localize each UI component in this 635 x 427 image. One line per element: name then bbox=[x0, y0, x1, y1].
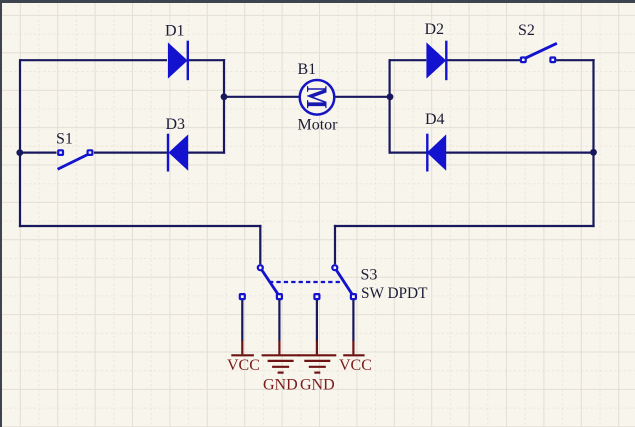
switch S2 bbox=[521, 43, 557, 62]
wire top-left rail bbox=[20, 59, 167, 61]
power VCC right stub bbox=[343, 341, 364, 356]
motor B1 bbox=[300, 80, 335, 115]
wire left vertical bbox=[19, 59, 21, 227]
frame top bbox=[0, 0, 635, 3]
power VCC left stub bbox=[231, 341, 254, 356]
svg-text:S1: S1 bbox=[56, 130, 73, 147]
wire S2 to corner bbox=[556, 59, 594, 61]
wire bottom rail left bbox=[19, 225, 262, 227]
wire S1 to D3 bbox=[94, 152, 167, 154]
node junction x224 motor tap bbox=[221, 93, 228, 100]
wire throw4 to VCC bbox=[352, 300, 354, 341]
svg-text:B1: B1 bbox=[298, 61, 317, 78]
wire bottom rail right bbox=[334, 225, 595, 227]
diode D1 bbox=[168, 41, 188, 80]
svg-text:SW DPDT: SW DPDT bbox=[361, 285, 428, 302]
wire D2 to S2 bbox=[447, 59, 521, 61]
svg-text:M: M bbox=[301, 86, 334, 109]
node junction left bbox=[16, 149, 23, 156]
wire to D4 bbox=[390, 152, 427, 154]
wire right cell left vertical bbox=[389, 59, 391, 154]
wire motor right bbox=[335, 96, 391, 98]
frame left bbox=[0, 0, 2, 427]
diode D2 bbox=[426, 41, 446, 80]
svg-text:VCC: VCC bbox=[339, 357, 372, 374]
diode D4 bbox=[427, 134, 446, 172]
node junction x390 motor tap bbox=[387, 93, 394, 100]
svg-text:GND: GND bbox=[300, 376, 335, 393]
wire throw3 to GND bbox=[316, 300, 318, 341]
svg-text:GND: GND bbox=[263, 376, 298, 393]
wire throw1 to VCC bbox=[241, 300, 243, 341]
diode D3 bbox=[168, 134, 188, 172]
node junction right bbox=[590, 149, 597, 156]
wire vertical x224 bbox=[223, 59, 225, 154]
wire motor left bbox=[224, 96, 300, 98]
switch S3 DPDT bbox=[240, 265, 356, 299]
wire bbox=[19, 59, 595, 341]
wire drop to S3 pole 1 bbox=[259, 225, 261, 264]
switch S1 bbox=[58, 150, 93, 169]
svg-text:D2: D2 bbox=[425, 21, 445, 38]
ground GND2 bbox=[298, 341, 336, 373]
wire D1 cathode to corner bbox=[189, 59, 225, 61]
wire to S1 bbox=[19, 152, 57, 154]
svg-text:S3: S3 bbox=[361, 267, 378, 284]
svg-text:Motor: Motor bbox=[298, 116, 339, 133]
svg-text:S2: S2 bbox=[518, 22, 535, 39]
wire to D2 bbox=[390, 59, 427, 61]
svg-text:D4: D4 bbox=[425, 111, 445, 128]
wire D4 to right vertical bbox=[446, 152, 595, 154]
wire throw2 to GND bbox=[278, 300, 280, 341]
svg-text:D3: D3 bbox=[166, 116, 186, 133]
svg-text:D1: D1 bbox=[165, 23, 185, 40]
wire drop to S3 pole 2 bbox=[334, 225, 336, 264]
wire right vertical bbox=[592, 59, 594, 227]
wire D3 to corner bbox=[188, 152, 225, 154]
svg-text:VCC: VCC bbox=[227, 357, 260, 374]
ground GND1 bbox=[262, 341, 300, 373]
